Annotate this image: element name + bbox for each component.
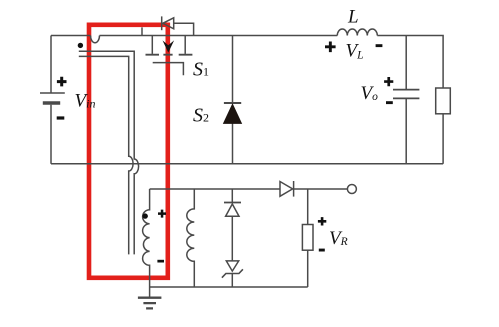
- svg-text:VR: VR: [329, 228, 348, 249]
- label + (VL): [325, 42, 336, 53]
- load resistor: [436, 88, 451, 114]
- diode D2 triangle (pointing up): [226, 204, 239, 216]
- current direction arrow on S1 branch: [163, 40, 175, 52]
- label + (VR): [318, 217, 326, 225]
- diode D3 (series output diode) triangle: [280, 182, 293, 197]
- transformer T1 secondary lead (outer): [79, 51, 139, 254]
- label - (VR): [319, 249, 325, 252]
- svg-text:S2: S2: [193, 105, 209, 127]
- label + (Vo): [384, 77, 393, 86]
- transformer T1 primary pass-through loop: [91, 36, 100, 43]
- body diode of S1: triangle: [163, 18, 174, 29]
- label - (battery): [57, 116, 65, 119]
- label + (winding): [158, 210, 166, 218]
- label + (battery): [57, 77, 67, 87]
- body diode of S1: stub from drain: [141, 27, 143, 35]
- svg-text:VL: VL: [346, 41, 364, 62]
- MOSFET S1 drain lead: [151, 36, 153, 54]
- capacitor Co branch: [405, 36, 407, 164]
- MOSFET S1 channel dashes: [146, 54, 193, 56]
- ground: [138, 298, 162, 309]
- diode D2 cathode bar: [224, 202, 241, 204]
- wire: to output terminal: [294, 188, 348, 190]
- zener diode DZ triangle (pointing down): [226, 261, 238, 271]
- wire: input positive rail: [51, 35, 91, 37]
- transformer T1 secondary lead (inner): [79, 56, 133, 254]
- diode S2 body (filled): [224, 104, 242, 123]
- svg-text:Vin: Vin: [75, 91, 96, 112]
- body diode of S1: anode wire: [174, 23, 194, 35]
- capacitor Co plates: [393, 90, 419, 99]
- transformer T1 polarity dot (secondary): [143, 213, 148, 218]
- diode S2 cathode bar: [224, 102, 241, 104]
- wire: rail from CT to switch node: [100, 35, 338, 37]
- MOSFET S1 gate: [153, 63, 184, 76]
- MOSFET S1 source lead: [184, 36, 186, 54]
- diode D2 branch wire: [231, 189, 233, 203]
- wire: bottom return rail: [51, 163, 443, 165]
- resistor VR branch wire (bottom): [307, 250, 309, 287]
- label - (Vo): [386, 101, 393, 104]
- inductor L2 (shunt winding): [187, 189, 195, 287]
- inductor L: [337, 29, 377, 35]
- wire: secondary top rail: [150, 188, 280, 190]
- transformer T1 secondary winding: [143, 189, 150, 298]
- transformer T1 polarity dot (primary): [78, 43, 83, 48]
- label - (winding): [157, 260, 164, 263]
- zener branch wire (bottom): [231, 274, 233, 288]
- highlight loop (red current-path rectangle): [89, 25, 168, 278]
- diode S2 branch wire (bottom): [232, 123, 234, 163]
- wire: output rail after inductor: [377, 36, 443, 89]
- resistor VR branch wire (top): [307, 189, 309, 225]
- zener diode DZ cathode bar: [222, 269, 243, 277]
- label - (VL): [376, 44, 383, 47]
- wire: secondary bottom rail: [150, 286, 308, 288]
- resistor VR body: [302, 225, 313, 251]
- output terminal: [347, 185, 356, 194]
- body diode of S1: cathode bar: [161, 16, 163, 30]
- svg-text:L: L: [347, 7, 359, 28]
- diode S2 branch wire (top): [232, 36, 234, 104]
- diode D3 cathode bar: [293, 181, 295, 197]
- svg-text:Vo: Vo: [361, 83, 379, 104]
- battery Vin: [50, 36, 52, 94]
- svg-text:S1: S1: [193, 59, 209, 81]
- wire between D2 and zener: [231, 216, 233, 261]
